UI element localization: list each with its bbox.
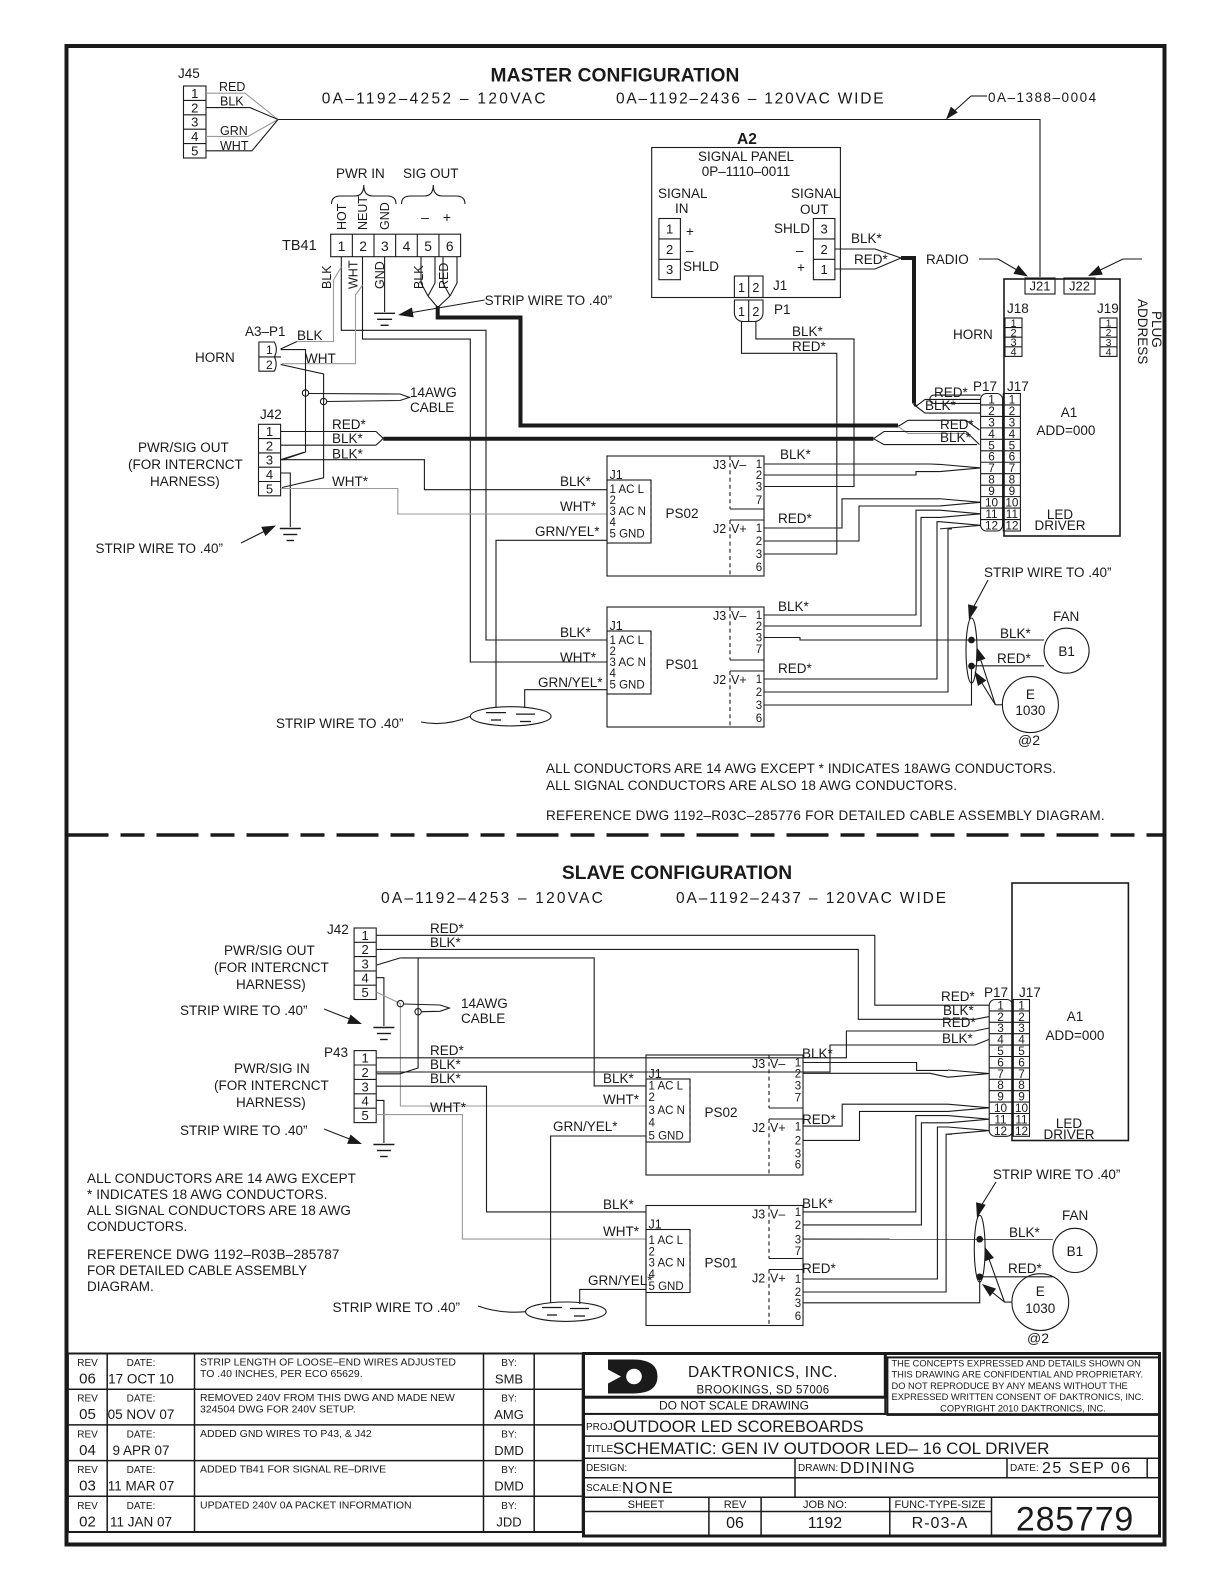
svg-text:12: 12 bbox=[1005, 518, 1018, 532]
svg-text:2: 2 bbox=[756, 470, 762, 482]
J42 pin4 wire to ground bbox=[281, 473, 291, 527]
svg-text:5 GND: 5 GND bbox=[610, 529, 645, 541]
slave J42 pin4 wire to ground bbox=[376, 978, 384, 1026]
svg-text:2: 2 bbox=[795, 1069, 801, 1081]
svg-text:3: 3 bbox=[362, 1079, 369, 1094]
svg-text:NONE: NONE bbox=[622, 1480, 674, 1497]
svg-text:3: 3 bbox=[266, 453, 273, 468]
PS02 J2-2 wire to P17 pin10 bbox=[764, 506, 940, 541]
svg-text:REV: REV bbox=[77, 1465, 98, 1476]
svg-text:A3–P1: A3–P1 bbox=[245, 324, 286, 339]
svg-text:SIGNAL: SIGNAL bbox=[791, 186, 841, 201]
svg-text:DDINING: DDINING bbox=[840, 1460, 916, 1477]
slave junction dot BLK* bbox=[977, 1236, 983, 1242]
svg-text:BLK*: BLK* bbox=[792, 324, 824, 339]
svg-text:P43: P43 bbox=[324, 1045, 348, 1060]
connector J45 bbox=[184, 86, 207, 158]
svg-text:HARNESS): HARNESS) bbox=[236, 977, 306, 992]
svg-text:6: 6 bbox=[795, 1311, 801, 1323]
svg-text:1: 1 bbox=[266, 424, 273, 439]
title block outer box bbox=[584, 1354, 1160, 1537]
svg-text:STRIP WIRE TO .40”: STRIP WIRE TO .40” bbox=[180, 1123, 308, 1138]
svg-text:WHT*: WHT* bbox=[430, 1100, 467, 1115]
svg-text:@2: @2 bbox=[1027, 1330, 1049, 1346]
svg-text:7: 7 bbox=[756, 644, 762, 656]
slave P17 pin10 chevron bbox=[948, 1104, 989, 1108]
svg-text:FUNC-TYPE-SIZE: FUNC-TYPE-SIZE bbox=[894, 1499, 985, 1511]
svg-text:REV: REV bbox=[77, 1501, 98, 1512]
thick radio signal wire A2 to P17 pin2 bbox=[901, 258, 914, 404]
svg-text:2: 2 bbox=[362, 1065, 369, 1080]
design drawn date row bbox=[584, 1457, 1160, 1459]
14AWG cable callout flag (slave) bbox=[404, 1004, 450, 1012]
svg-text:RED*: RED* bbox=[997, 651, 1032, 666]
svg-text:2: 2 bbox=[359, 239, 367, 254]
svg-text:BLK*: BLK* bbox=[778, 599, 810, 614]
svg-text:(FOR INTERCNCT: (FOR INTERCNCT bbox=[214, 960, 329, 975]
svg-text:WHT*: WHT* bbox=[603, 1224, 640, 1239]
svg-text:25 SEP 06: 25 SEP 06 bbox=[1042, 1460, 1132, 1477]
connector J1 on A2 bbox=[734, 276, 763, 298]
svg-text:0A–1388–0004: 0A–1388–0004 bbox=[988, 90, 1098, 105]
svg-text:285779: 285779 bbox=[1016, 1501, 1134, 1539]
svg-text:12: 12 bbox=[1015, 1124, 1028, 1138]
svg-text:PWR/SIG OUT: PWR/SIG OUT bbox=[138, 440, 229, 455]
svg-text:STRIP WIRE TO .40”: STRIP WIRE TO .40” bbox=[333, 1300, 461, 1315]
slave J42 pin3 wire to PS02 AC L bbox=[377, 958, 401, 965]
connector P43 bbox=[354, 1051, 376, 1123]
svg-text:DATE:: DATE: bbox=[127, 1501, 156, 1512]
slave PS01 GRN/YEL wire to bundle bbox=[580, 1289, 646, 1304]
svg-text:06: 06 bbox=[726, 1515, 744, 1532]
svg-text:ALL CONDUCTORS ARE 14 AWG: ALL CONDUCTORS ARE 14 AWG EXCEPT * INDIC… bbox=[546, 761, 1056, 776]
svg-text:1: 1 bbox=[795, 1207, 801, 1219]
svg-text:5: 5 bbox=[424, 239, 432, 254]
svg-text:SLAVE CONFIGURATION: SLAVE CONFIGURATION bbox=[562, 863, 792, 884]
svg-text:J2: J2 bbox=[752, 1272, 765, 1286]
connector J42 (master) bbox=[259, 424, 281, 496]
slave PS02 J3-1 wire to P17 pin7 bbox=[803, 1063, 948, 1071]
svg-text:7: 7 bbox=[756, 495, 762, 507]
svg-text:2: 2 bbox=[191, 100, 198, 115]
svg-text:DRIVER: DRIVER bbox=[1034, 518, 1085, 533]
svg-text:RED*: RED* bbox=[802, 1112, 837, 1127]
svg-text:3: 3 bbox=[756, 633, 762, 645]
svg-text:RED*: RED* bbox=[332, 417, 367, 432]
svg-text:1: 1 bbox=[795, 1274, 801, 1286]
svg-text:4: 4 bbox=[1010, 347, 1016, 359]
svg-text:DO NOT REPRODUCE BY ANY M: DO NOT REPRODUCE BY ANY MEANS WITHOUT TH… bbox=[892, 1381, 1128, 1391]
svg-text:BLK*: BLK* bbox=[1000, 626, 1032, 641]
svg-text:BROOKINGS, SD 57006: BROOKINGS, SD 57006 bbox=[697, 1385, 830, 1397]
svg-text:14AWG: 14AWG bbox=[410, 385, 457, 400]
svg-text:6: 6 bbox=[756, 713, 762, 725]
svg-text:J2: J2 bbox=[713, 522, 726, 536]
PS01 J3-2 wire to P17 pin11 bbox=[764, 517, 940, 626]
ground symbol at slave J42 bbox=[373, 1027, 394, 1029]
thick signal wire J42 to P17 pin4 bbox=[383, 437, 873, 441]
proprietary notice box bbox=[887, 1357, 1159, 1415]
svg-text:OUTDOOR LED SCOREBOARDS: OUTDOOR LED SCOREBOARDS bbox=[613, 1418, 864, 1436]
svg-text:COPYRIGHT 2010 DAKTRONICS,: COPYRIGHT 2010 DAKTRONICS, INC. bbox=[940, 1403, 1106, 1413]
svg-text:BLK*: BLK* bbox=[802, 1046, 834, 1061]
14AWG cable callout circles (slave) bbox=[397, 1000, 403, 1006]
svg-text:0A–1192–4252 – 120VAC: 0A–1192–4252 – 120VAC bbox=[322, 91, 548, 108]
connector J19 pin stack bbox=[1100, 318, 1117, 356]
14AWG cable callout flag bbox=[309, 394, 410, 402]
svg-text:REMOVED 240V FROM THIS DWG: REMOVED 240V FROM THIS DWG AND MADE NEW bbox=[200, 1392, 455, 1404]
svg-text:+: + bbox=[443, 209, 451, 225]
connector P17 pin column (slave) bbox=[989, 1000, 1013, 1137]
slave PS01 J2-2 wire to P17 pin12 bbox=[803, 1134, 952, 1292]
svg-text:E: E bbox=[1036, 1284, 1045, 1299]
power supply PS01 box bbox=[607, 607, 764, 727]
svg-text:J19: J19 bbox=[1097, 301, 1119, 316]
svg-text:RED*: RED* bbox=[778, 661, 813, 676]
svg-text:V+: V+ bbox=[731, 522, 747, 536]
svg-text:SMB: SMB bbox=[495, 1372, 523, 1387]
slave PS02 J3-2 wire to P17 pin7 bbox=[803, 1073, 948, 1077]
svg-text:V–: V– bbox=[731, 458, 746, 472]
svg-text:PS02: PS02 bbox=[704, 1105, 737, 1120]
PS02 J3-1 wire to P17 pin7 bbox=[764, 463, 940, 465]
svg-text:BLK*: BLK* bbox=[430, 1057, 462, 1072]
svg-text:1: 1 bbox=[338, 239, 346, 254]
svg-text:BY:: BY: bbox=[501, 1465, 517, 1476]
svg-text:4: 4 bbox=[610, 517, 617, 529]
svg-text:J42: J42 bbox=[327, 922, 349, 937]
svg-text:BY:: BY: bbox=[501, 1429, 517, 1440]
svg-text:JOB NO:: JOB NO: bbox=[803, 1499, 847, 1511]
svg-text:PROJ:: PROJ: bbox=[586, 1422, 615, 1433]
svg-text:P1: P1 bbox=[774, 302, 791, 317]
slave PS02 J2-2 wire to P17 pin10 bbox=[803, 1111, 948, 1140]
svg-text:4: 4 bbox=[610, 668, 617, 680]
svg-text:WHT*: WHT* bbox=[603, 1092, 640, 1107]
svg-text:RADIO: RADIO bbox=[926, 252, 969, 267]
svg-text:4: 4 bbox=[266, 467, 273, 482]
svg-text:–: – bbox=[796, 243, 804, 258]
svg-text:BLK*: BLK* bbox=[603, 1071, 635, 1086]
svg-text:DMD: DMD bbox=[494, 1443, 524, 1458]
svg-text:PWR/SIG IN: PWR/SIG IN bbox=[234, 1061, 310, 1076]
cable wrap ellipse at fan (master) bbox=[966, 618, 977, 683]
svg-text:SIGNAL: SIGNAL bbox=[658, 186, 708, 201]
svg-text:REV: REV bbox=[77, 1429, 98, 1440]
svg-text:04: 04 bbox=[79, 1442, 96, 1459]
svg-text:SCALE:: SCALE: bbox=[586, 1483, 622, 1494]
svg-text:WHT*: WHT* bbox=[332, 474, 369, 489]
svg-text:HORN: HORN bbox=[953, 327, 993, 342]
svg-text:B1: B1 bbox=[1067, 1244, 1084, 1259]
svg-text:CABLE: CABLE bbox=[410, 400, 454, 415]
svg-text:PLUG: PLUG bbox=[1149, 311, 1164, 348]
svg-text:4: 4 bbox=[649, 1118, 656, 1130]
svg-text:BLK*: BLK* bbox=[560, 625, 592, 640]
TB41 pin2 WHT slant to A3-P1 bbox=[282, 285, 363, 364]
connector J21 bbox=[1025, 278, 1055, 294]
J45 pin2 wire BLK bbox=[206, 108, 278, 120]
connector J42 (slave) bbox=[354, 928, 376, 1000]
svg-text:3: 3 bbox=[756, 700, 762, 712]
svg-text:2: 2 bbox=[795, 1136, 801, 1148]
svg-text:TITLE:: TITLE: bbox=[586, 1444, 616, 1455]
svg-text:BY:: BY: bbox=[501, 1501, 517, 1512]
svg-text:JDD: JDD bbox=[496, 1514, 521, 1529]
svg-text:J3: J3 bbox=[713, 458, 726, 472]
svg-text:UPDATED 240V 0A PACKET INF: UPDATED 240V 0A PACKET INFORMATION bbox=[200, 1499, 412, 1511]
arrows from E1030 to junction dots (master) bbox=[995, 704, 1002, 706]
svg-text:SHLD: SHLD bbox=[683, 259, 719, 274]
svg-text:1: 1 bbox=[191, 86, 198, 101]
svg-text:17 OCT 10: 17 OCT 10 bbox=[108, 1372, 174, 1387]
svg-text:REV: REV bbox=[77, 1358, 98, 1369]
svg-text:4: 4 bbox=[403, 239, 411, 254]
slave J42 pin5 wire WHT* to PS02 AC N bbox=[376, 992, 646, 1106]
svg-text:–: – bbox=[421, 209, 429, 225]
PS02 GRN/YEL wire to ground bundle bbox=[496, 540, 607, 707]
svg-text:DATE:: DATE: bbox=[127, 1358, 156, 1369]
svg-text:1: 1 bbox=[266, 343, 273, 357]
signal panel A2 box bbox=[652, 148, 841, 298]
LED driver A1 box (master) bbox=[1004, 279, 1120, 536]
TB41 pin1 wire to PS01 AC L bbox=[341, 257, 607, 640]
svg-text:2: 2 bbox=[362, 942, 369, 957]
svg-text:DMD: DMD bbox=[494, 1479, 524, 1494]
14AWG cable callout circles bbox=[302, 390, 308, 396]
svg-text:BLK*: BLK* bbox=[430, 935, 462, 950]
svg-text:BLK*: BLK* bbox=[1009, 1225, 1041, 1240]
svg-text:CABLE: CABLE bbox=[461, 1011, 505, 1026]
A2 signal out pin stack bbox=[813, 219, 835, 280]
daktronics D logo bbox=[608, 1360, 658, 1394]
svg-text:HORN: HORN bbox=[195, 350, 235, 365]
device E 1030 circle (master) bbox=[1002, 677, 1058, 733]
J42 pin1/pin2 cable flag to thick wire bbox=[281, 431, 376, 433]
svg-text:SHLD: SHLD bbox=[774, 221, 810, 236]
TB41 pin5 pin6 cable chevrons bbox=[421, 257, 428, 296]
svg-text:SHEET: SHEET bbox=[628, 1499, 665, 1511]
connector P17 pin column (master) bbox=[981, 394, 1003, 532]
svg-text:RED*: RED* bbox=[792, 339, 827, 354]
svg-text:RED*: RED* bbox=[942, 1015, 977, 1030]
svg-text:3: 3 bbox=[362, 956, 369, 971]
slave ground bundle ellipse bbox=[526, 1302, 607, 1321]
title row bbox=[584, 1435, 1160, 1437]
svg-text:14AWG: 14AWG bbox=[461, 996, 508, 1011]
svg-text:MASTER CONFIGURATION: MASTER CONFIGURATION bbox=[491, 66, 740, 87]
slave P17 pin7 chevron bbox=[948, 1070, 989, 1074]
svg-text:SCHEMATIC: GEN IV OUTDOOR: SCHEMATIC: GEN IV OUTDOOR LED– 16 COL DR… bbox=[613, 1439, 1049, 1458]
svg-text:WHT*: WHT* bbox=[560, 499, 597, 514]
PS02 J3-2 wire to P17 pin7 bbox=[764, 472, 940, 475]
svg-text:RED*: RED* bbox=[778, 511, 813, 526]
slave P17 pin11 chevron bbox=[948, 1116, 989, 1120]
svg-text:FAN: FAN bbox=[1062, 1208, 1088, 1223]
svg-text:HOT: HOT bbox=[335, 203, 349, 230]
svg-text:REFERENCE DWG 1192–R03B–2857: REFERENCE DWG 1192–R03B–285787 bbox=[87, 1247, 340, 1262]
ground symbol at TB41 bbox=[374, 312, 395, 314]
svg-text:0A–1192–4253 – 120VAC: 0A–1192–4253 – 120VAC bbox=[381, 890, 605, 907]
svg-text:3: 3 bbox=[756, 482, 762, 494]
svg-text:2: 2 bbox=[266, 438, 273, 453]
svg-text:3: 3 bbox=[381, 239, 389, 254]
svg-text:RED*: RED* bbox=[854, 252, 889, 267]
svg-text:324504 DWG FOR 240V SETUP.: 324504 DWG FOR 240V SETUP. bbox=[200, 1404, 356, 1416]
svg-text:J45: J45 bbox=[178, 66, 200, 81]
power supply PS02 box bbox=[607, 456, 764, 576]
svg-text:9 APR 07: 9 APR 07 bbox=[112, 1443, 169, 1458]
svg-text:J3: J3 bbox=[713, 609, 726, 623]
svg-text:0A–1192–2436 – 120VAC WIDE: 0A–1192–2436 – 120VAC WIDE bbox=[616, 91, 885, 108]
svg-text:1: 1 bbox=[738, 305, 745, 319]
svg-text:STRIP WIRE TO .40”: STRIP WIRE TO .40” bbox=[276, 716, 404, 731]
svg-text:STRIP WIRE TO .40”: STRIP WIRE TO .40” bbox=[993, 1167, 1121, 1182]
svg-text:1: 1 bbox=[666, 221, 673, 236]
J45 pin5 wire WHT bbox=[206, 120, 278, 151]
svg-text:1: 1 bbox=[738, 281, 745, 295]
PS01 J2-1 wire to P17 pin12 bbox=[764, 522, 940, 679]
svg-text:2: 2 bbox=[649, 1092, 655, 1104]
PS02 J2-1 wire to P17 pin10 bbox=[764, 499, 940, 528]
svg-text:1: 1 bbox=[756, 674, 762, 686]
svg-text:FOR DETAILED CABLE ASSEMBLY: FOR DETAILED CABLE ASSEMBLY bbox=[87, 1263, 307, 1278]
svg-text:BY:: BY: bbox=[501, 1394, 517, 1405]
svg-text:PWR/SIG OUT: PWR/SIG OUT bbox=[224, 943, 315, 958]
svg-text:DO NOT SCALE DRAWING: DO NOT SCALE DRAWING bbox=[659, 1399, 809, 1413]
svg-text:1: 1 bbox=[362, 1050, 369, 1065]
do not scale drawing box bbox=[584, 1397, 886, 1414]
sheet rev jobno row bbox=[584, 1496, 1160, 1498]
PS01 GRN/YEL wire to ground bundle bbox=[525, 690, 607, 708]
svg-text:V–: V– bbox=[770, 1057, 785, 1071]
svg-text:DATE:: DATE: bbox=[127, 1465, 156, 1476]
svg-text:@2: @2 bbox=[1018, 732, 1040, 748]
svg-text:3: 3 bbox=[795, 1234, 801, 1246]
svg-text:THIS DRAWING ARE CONFIDENTI: THIS DRAWING ARE CONFIDENTIAL AND PROPRI… bbox=[892, 1370, 1143, 1380]
svg-text:ALL SIGNAL CONDUCTORS ARE: ALL SIGNAL CONDUCTORS ARE ALSO 18 AWG CO… bbox=[546, 778, 957, 793]
connector J17 pin column (slave) bbox=[1013, 1000, 1029, 1137]
svg-text:NEUT: NEUT bbox=[356, 196, 370, 230]
svg-text:DATE:: DATE: bbox=[1010, 1463, 1039, 1474]
svg-text:02: 02 bbox=[79, 1513, 96, 1530]
svg-text:06: 06 bbox=[79, 1371, 96, 1388]
svg-text:1 AC L: 1 AC L bbox=[649, 1081, 684, 1093]
svg-text:12: 12 bbox=[994, 1124, 1007, 1138]
svg-text:J22: J22 bbox=[1069, 279, 1090, 294]
slave PS01 J3-1 wire to P17 pin11 bbox=[803, 1116, 948, 1212]
svg-text:1: 1 bbox=[795, 1121, 801, 1133]
svg-text:E: E bbox=[1026, 687, 1035, 702]
slave J42-P43 link wire bbox=[377, 958, 418, 1074]
svg-text:GRN/YEL*: GRN/YEL* bbox=[538, 675, 603, 690]
svg-text:BY:: BY: bbox=[501, 1358, 517, 1369]
svg-text:3: 3 bbox=[821, 221, 828, 236]
svg-text:5: 5 bbox=[362, 985, 369, 1000]
svg-text:0A–1192–2437 – 120VAC WIDE: 0A–1192–2437 – 120VAC WIDE bbox=[676, 890, 948, 907]
ground symbol at J42 (master) bbox=[280, 528, 301, 530]
svg-text:* INDICATES 18 AWG CONDUCT: * INDICATES 18 AWG CONDUCTORS. bbox=[87, 1187, 328, 1202]
power supply PS01 box bbox=[646, 1206, 803, 1326]
svg-text:PS01: PS01 bbox=[704, 1256, 737, 1271]
connector P1 bbox=[734, 300, 763, 322]
svg-text:ADD=000: ADD=000 bbox=[1046, 1028, 1105, 1043]
svg-text:EXPRESSED WRITTEN CONSENT O: EXPRESSED WRITTEN CONSENT OF DAKTRONICS,… bbox=[892, 1392, 1144, 1402]
thick signal wire TB41 to P17 pin3 bbox=[438, 306, 898, 426]
svg-text:DAKTRONICS, INC.: DAKTRONICS, INC. bbox=[688, 1364, 838, 1381]
svg-text:REV: REV bbox=[77, 1394, 98, 1405]
proj row bbox=[584, 1413, 1160, 1415]
svg-text:V+: V+ bbox=[770, 1272, 786, 1286]
svg-text:BLK: BLK bbox=[412, 265, 426, 289]
svg-text:V–: V– bbox=[770, 1208, 785, 1222]
svg-text:STRIP WIRE TO .40”: STRIP WIRE TO .40” bbox=[984, 565, 1112, 580]
P17 pin7 chevron (master) bbox=[940, 464, 981, 468]
svg-text:11 MAR 07: 11 MAR 07 bbox=[108, 1479, 175, 1494]
svg-text:STRIP LENGTH OF LOOSE–END: STRIP LENGTH OF LOOSE–END WIRES ADJUSTED bbox=[200, 1357, 456, 1369]
svg-text:DESIGN:: DESIGN: bbox=[586, 1463, 627, 1474]
slave PS01 J2-1 wire to P17 pin12 bbox=[803, 1127, 948, 1279]
svg-text:BLK*: BLK* bbox=[780, 447, 812, 462]
svg-text:7: 7 bbox=[795, 1246, 801, 1258]
svg-text:PWR IN: PWR IN bbox=[336, 166, 385, 181]
TB41 pin1 BLK label slant bbox=[334, 267, 342, 280]
svg-text:2: 2 bbox=[795, 1220, 801, 1232]
mini ground symbols in bundle bbox=[486, 712, 506, 714]
slave junction dot RED* bbox=[977, 1274, 983, 1280]
connector J22 bbox=[1064, 278, 1095, 294]
svg-text:3 AC N: 3 AC N bbox=[649, 1258, 685, 1270]
svg-text:2: 2 bbox=[756, 687, 762, 699]
svg-text:OUT: OUT bbox=[800, 202, 829, 217]
svg-text:J42: J42 bbox=[260, 407, 282, 422]
A3-P1 pin2 wire down to J42 pin5 bbox=[281, 365, 324, 488]
svg-text:A2: A2 bbox=[737, 131, 757, 148]
svg-text:1192: 1192 bbox=[808, 1515, 843, 1532]
svg-text:ALL CONDUCTORS ARE 14 AWG: ALL CONDUCTORS ARE 14 AWG EXCEPT bbox=[87, 1171, 356, 1186]
svg-text:BLK*: BLK* bbox=[802, 1196, 834, 1211]
svg-text:–: – bbox=[686, 243, 694, 258]
svg-text:4: 4 bbox=[1106, 346, 1112, 358]
svg-text:PS02: PS02 bbox=[665, 506, 698, 521]
svg-text:(FOR INTERCNCT: (FOR INTERCNCT bbox=[128, 457, 243, 472]
svg-text:TB41: TB41 bbox=[282, 238, 317, 254]
fan B1 circle (master) bbox=[1044, 628, 1089, 673]
svg-text:WHT: WHT bbox=[347, 260, 361, 289]
svg-text:7: 7 bbox=[795, 1092, 801, 1104]
svg-text:6: 6 bbox=[446, 239, 454, 254]
svg-text:IN: IN bbox=[675, 201, 689, 216]
svg-text:2: 2 bbox=[756, 621, 762, 633]
master/slave dashed separator line bbox=[67, 833, 1165, 836]
svg-text:5 GND: 5 GND bbox=[610, 680, 645, 692]
svg-text:3: 3 bbox=[756, 549, 762, 561]
svg-text:4: 4 bbox=[362, 1094, 369, 1109]
svg-text:FAN: FAN bbox=[1053, 609, 1079, 624]
revision table bbox=[68, 1354, 583, 1533]
svg-text:ALL SIGNAL CONDUCTORS ARE: ALL SIGNAL CONDUCTORS ARE 18 AWG bbox=[87, 1203, 351, 1218]
svg-text:2: 2 bbox=[752, 281, 759, 295]
svg-text:4: 4 bbox=[191, 129, 198, 144]
svg-text:CONDUCTORS.: CONDUCTORS. bbox=[87, 1219, 187, 1234]
TB41 pin2 wire to PS01 AC N bbox=[363, 257, 608, 662]
svg-text:REFERENCE DWG 1192–R03C–2857: REFERENCE DWG 1192–R03C–285776 FOR DETAI… bbox=[546, 808, 1105, 823]
slave PS01 J3-2 wire to P17 pin11 bbox=[803, 1123, 948, 1225]
svg-text:AMG: AMG bbox=[494, 1407, 524, 1422]
svg-text:05: 05 bbox=[79, 1406, 96, 1423]
svg-text:BLK*: BLK* bbox=[942, 1031, 974, 1046]
P43 pin4 wire to ground bbox=[376, 1100, 384, 1143]
